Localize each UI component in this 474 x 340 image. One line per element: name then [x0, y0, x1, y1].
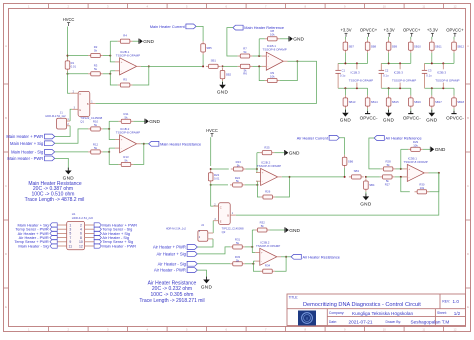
svg-text:GND: GND [289, 151, 300, 157]
svg-text:IC2B.3: IC2B.3 [394, 70, 404, 74]
op-amp power pins IC2B.3 [392, 63, 416, 88]
node main shunt bottom [67, 73, 69, 75]
svg-text:-: - [262, 179, 263, 183]
ground flag group 1 [340, 110, 352, 123]
wire [367, 37, 369, 40]
wire minus node vertical to R5 [110, 71, 117, 85]
wire to R25 [257, 152, 260, 154]
power flag OPVCC- group 1 [360, 111, 378, 121]
svg-text:10k: 10k [270, 33, 275, 37]
resistor R23 5k [231, 160, 246, 171]
svg-text:1/2: 1/2 [454, 311, 461, 316]
svg-text:TSSOP-8 OPAMP: TSSOP-8 OPAMP [257, 164, 281, 168]
svg-text:0.1u: 0.1u [383, 73, 389, 77]
resistor R4 [118, 34, 133, 44]
svg-text:TSSOP-8 OPAMP: TSSOP-8 OPAMP [116, 53, 140, 57]
ground flag at R4 [139, 39, 155, 46]
connector J4 HDR-M-2.54_1x2 [166, 223, 213, 241]
text block main heater resistance [25, 181, 85, 203]
svg-text:E: E [220, 219, 222, 223]
hier label Main Heater - Sig [11, 149, 55, 154]
wire J1 pin2 to label [55, 126, 70, 137]
resistor SB1 [206, 59, 221, 69]
wire R3 to minus node [103, 73, 110, 75]
wire R8 to GND [280, 38, 289, 40]
svg-text:12: 12 [454, 328, 457, 332]
svg-text:-: - [261, 259, 262, 263]
wire plus node up [400, 149, 402, 169]
resistor R31 5k [230, 238, 245, 249]
wire R33 to minus node [245, 263, 254, 265]
node IC3B.1 output [438, 172, 440, 174]
svg-text:10: 10 [383, 4, 386, 8]
hier pin Main Heater - PWR [94, 244, 101, 248]
power flag +3.3V group 1 [340, 28, 351, 37]
wire [367, 53, 369, 64]
svg-text:R26: R26 [265, 190, 271, 194]
global label Main Heater Current [150, 24, 196, 29]
svg-text:♕: ♕ [305, 316, 308, 320]
wire [431, 88, 433, 95]
resistor SB17 [430, 95, 443, 108]
svg-text:OPVCC+: OPVCC+ [446, 28, 464, 33]
svg-text:10k: 10k [413, 143, 418, 147]
op-amp IC3B.1 [403, 156, 429, 181]
svg-text:+3.3V: +3.3V [384, 28, 395, 33]
wire R2 to op-amp plus node [103, 55, 110, 57]
wire R4 to GND [133, 40, 139, 42]
wire [344, 109, 346, 112]
svg-text:B: B [87, 102, 89, 106]
svg-text:E: E [5, 305, 7, 309]
svg-text:Sheet:: Sheet: [437, 311, 447, 315]
global label Air Heater Current [297, 135, 340, 140]
wire top rail group 2 [381, 62, 411, 64]
svg-text:11: 11 [422, 4, 425, 8]
svg-text:Air Heater Current: Air Heater Current [297, 136, 329, 140]
power flag HVCC (air) [206, 128, 218, 137]
transistor Q1 TIP122_C145098 [70, 90, 102, 123]
svg-text:Air Heater - PWR: Air Heater - PWR [154, 268, 186, 273]
hier label Main Heater + PWR [6, 134, 54, 139]
wire output to label [141, 143, 149, 145]
wire plus into pin [259, 55, 262, 57]
resistor R26 [260, 190, 275, 199]
hier pin Temp Sensr + Sig [94, 240, 101, 244]
svg-text:Main Heater + PWR: Main Heater + PWR [6, 134, 43, 139]
svg-text:10: 10 [383, 328, 386, 332]
resistor SB10 [409, 40, 422, 53]
op-amp power pins IC1B.3 [349, 63, 373, 88]
svg-text:Main Heater Current: Main Heater Current [150, 25, 186, 29]
svg-text:SB3: SB3 [354, 169, 360, 173]
svg-text:OPVCC+: OPVCC+ [403, 28, 421, 33]
svg-text:D: D [467, 252, 469, 256]
power flag OPVCC- group 3 [446, 111, 464, 121]
svg-text:R5: R5 [123, 78, 127, 82]
node IC3B.1 minus [400, 176, 402, 178]
wire -Sig to R12 [55, 151, 88, 153]
hier pin Air Heater - Sig [94, 235, 101, 239]
svg-text:Company:: Company: [329, 311, 345, 315]
wire +Sig to R31 [197, 247, 230, 254]
svg-text:TSSOP-8 OPAMP: TSSOP-8 OPAMP [256, 244, 280, 248]
wire plus node vertical [110, 41, 115, 62]
resistor R11 5k [119, 112, 134, 123]
power flag HVCC (main) [63, 17, 75, 26]
wire R28 to plus node [396, 168, 401, 170]
hier pin Temp Sensr - Sig [94, 227, 101, 231]
hier pin Main Heater - Sig [50, 244, 57, 248]
op-amp IC2B.2 [256, 160, 282, 185]
svg-text:Air Heater + PWR: Air Heater + PWR [153, 245, 186, 250]
wire [344, 53, 346, 64]
svg-text:C: C [79, 92, 81, 96]
wire -PWR to ground [55, 158, 69, 169]
svg-text:+3.3V: +3.3V [340, 28, 351, 33]
svg-text:Air Heater Resistance: Air Heater Resistance [303, 255, 340, 259]
wire [453, 53, 455, 64]
svg-text:SB12: SB12 [457, 44, 464, 48]
svg-text:TSSOP-8 OPAMP: TSSOP-8 OPAMP [263, 48, 287, 52]
svg-text:R27: R27 [385, 182, 391, 186]
title block [287, 294, 466, 326]
ground flag main heater -PWR [63, 168, 75, 181]
svg-text:GND: GND [217, 90, 229, 95]
wire top rail group 3 [425, 62, 455, 64]
svg-text:J1: J1 [60, 111, 63, 115]
resistor R9 10k [265, 71, 280, 82]
svg-text:GND: GND [289, 228, 300, 234]
svg-text:Air Heater - Sig: Air Heater - Sig [158, 261, 187, 266]
svg-text:Main Heater - PWR: Main Heater - PWR [102, 243, 136, 248]
resistor SB2 [220, 68, 231, 81]
resistor SB4 [364, 179, 375, 192]
ground flag below SB2 [217, 82, 229, 95]
wire [410, 88, 412, 95]
svg-text:SB10: SB10 [414, 44, 421, 48]
svg-text:0.1u: 0.1u [426, 73, 432, 77]
resistor R32 5k [255, 221, 270, 232]
resistor R25 [260, 145, 275, 154]
resistor SB7 [343, 40, 354, 53]
ground flag at R32 [285, 227, 301, 234]
wire feedback R34 [275, 257, 286, 271]
wire feedback R30 [429, 173, 439, 192]
svg-text:Trace Length -> 4878.2 mil: Trace Length -> 4878.2 mil [25, 197, 85, 203]
ground flag at R25 [284, 150, 300, 157]
wire IC3B.1 output loop to Q2 base [236, 173, 439, 215]
resistor R12 5k [88, 143, 103, 154]
connector J1 HDR-M-2.54_1x2 [45, 111, 70, 129]
node air shunt bottom [210, 184, 212, 186]
resistor R6 5k [238, 64, 253, 75]
hier label Air Heater - Sig [158, 261, 198, 266]
svg-text:B: B [5, 116, 7, 120]
svg-text:-: - [409, 175, 410, 179]
svg-text:Main Heater - PWR: Main Heater - PWR [7, 156, 43, 161]
svg-text:SB1: SB1 [211, 59, 217, 63]
node IC1B.2 output [143, 143, 145, 145]
svg-text:-: - [268, 64, 269, 68]
svg-text:R25: R25 [264, 145, 270, 149]
op-amp IC1B.1 [262, 44, 288, 70]
wire shunt top to R2 [68, 55, 89, 57]
svg-text:Date:: Date: [329, 320, 337, 324]
svg-text:GND: GND [201, 284, 213, 289]
global label Main Heater Reference [233, 25, 284, 30]
svg-text:Q1: Q1 [80, 119, 84, 123]
svg-text:SB17: SB17 [435, 100, 442, 104]
node IC2B.2 output [289, 176, 291, 178]
op-amp power pins IC3B.3 [435, 63, 459, 88]
svg-text:Main Heater + Sig: Main Heater + Sig [10, 141, 44, 146]
svg-text:Air Heater + Sig: Air Heater + Sig [157, 251, 187, 256]
wire HVCC2 down [210, 137, 212, 166]
node U1 minus [109, 73, 111, 75]
KTH logo [298, 311, 316, 326]
power flag +3.3V group 3 [427, 28, 438, 37]
ground flag at R11 [145, 119, 161, 126]
wire shunt bottom to R3 [68, 73, 89, 75]
resistor SB15 [386, 95, 399, 108]
resistor SB3 [349, 169, 364, 179]
svg-text:SB14: SB14 [371, 100, 378, 104]
svg-text:GND: GND [63, 175, 75, 180]
svg-text:IC3B.3: IC3B.3 [437, 70, 447, 74]
wire [431, 109, 433, 112]
resistor R3 5k [88, 63, 103, 75]
wire to R27 [366, 176, 380, 178]
wire feedback R13 [133, 144, 143, 165]
node IC2B.2 minus [256, 184, 258, 186]
wire plus vertical [255, 153, 258, 173]
svg-text:SB2: SB2 [226, 73, 232, 77]
wire Q1 emitter to J1 pin1 [70, 109, 72, 121]
node SB5 output [202, 65, 204, 67]
svg-text:C: C [5, 184, 7, 188]
svg-text:B: B [467, 116, 469, 120]
hier pin Air Heater + Sig [94, 231, 101, 235]
capacitor C1 0.1u [335, 63, 345, 88]
svg-text:HVCC: HVCC [206, 128, 218, 133]
hier pin Air Heater + PWR [50, 231, 57, 235]
svg-text:Main Heater - Sig: Main Heater - Sig [11, 149, 44, 154]
svg-text:Democritizing DNA Diagnostics: Democritizing DNA Diagnostics - Control … [303, 302, 421, 308]
wire minus node down to R9 [259, 66, 265, 80]
wire R31 to plus node [245, 246, 252, 248]
node IC3B.2 output [285, 256, 287, 258]
svg-text:12: 12 [454, 4, 457, 8]
resistor R13 5k [119, 155, 134, 166]
wire [388, 109, 390, 112]
svg-text:Q2: Q2 [222, 230, 226, 234]
wire label to SB6 [339, 138, 344, 155]
svg-text:C: C [467, 184, 469, 188]
transistor Q2 TIP122_C145098 [213, 203, 244, 234]
svg-text:GND: GND [149, 119, 160, 125]
svg-text:Main Heater - Sig: Main Heater - Sig [18, 243, 48, 248]
svg-text:SB4: SB4 [369, 183, 375, 187]
power flag OPVCC+ group 2 [403, 28, 421, 37]
node main shunt top [67, 55, 69, 57]
svg-text:GND: GND [293, 37, 304, 43]
resistor R5 feedback [118, 78, 133, 88]
wire plus node up to R8 [258, 39, 260, 56]
wire R12 to minus node [103, 151, 109, 153]
wire [344, 88, 346, 95]
svg-text:0.01: 0.01 [214, 177, 220, 181]
wire minus into pin [109, 147, 115, 149]
svg-text:GND: GND [143, 39, 154, 45]
svg-text:J4: J4 [201, 223, 204, 227]
wire IC1B.1 output loop to Q1 base [95, 61, 316, 103]
op-amp IC1B.2 [115, 127, 141, 153]
resistor R27 5k [380, 175, 395, 186]
resistor SB11 [430, 40, 443, 53]
wire output [429, 172, 439, 174]
svg-text:HDR-M-2.54_1x2: HDR-M-2.54_1x2 [166, 227, 187, 231]
wire R11 to GND [133, 120, 145, 122]
resistor R2 5k [88, 45, 103, 57]
ground flag at R29 [430, 147, 446, 154]
wire shunt bottom to R24 [211, 184, 228, 186]
wire feedback R26 [275, 177, 289, 197]
wire SB4 down [365, 192, 367, 196]
wire to R32 [252, 229, 255, 231]
wire minus vertical to R34 [253, 261, 260, 271]
wire Q2 emitter to J4 pin1 [212, 221, 214, 233]
wire bottom rail group 3 [425, 87, 455, 89]
wire [431, 37, 433, 40]
power flag +3.3V group 2 [384, 28, 395, 37]
wire shunt top to R23 [211, 168, 229, 170]
resistor R22 shunt 0.01 [208, 170, 219, 183]
resistor SB18 [452, 95, 465, 108]
wire to R8 [259, 38, 265, 40]
svg-text:R34: R34 [265, 264, 271, 268]
svg-text:SB5: SB5 [206, 46, 212, 50]
hier pin Main Heater + Sig [50, 223, 57, 227]
node SB1 SB2 [222, 65, 224, 67]
capacitor C3 0.1u [422, 63, 432, 88]
resistor R33 5k [230, 255, 245, 266]
svg-text:C2: C2 [385, 68, 389, 72]
svg-text:2021-07-21: 2021-07-21 [349, 319, 373, 324]
svg-text:SB15: SB15 [392, 100, 399, 104]
hier label Air Heater - PWR [154, 268, 197, 273]
connector H1 HDR-F-2.54_2x6 [57, 212, 94, 250]
svg-text:GND: GND [340, 118, 352, 123]
wire [453, 88, 455, 95]
svg-text:D: D [5, 252, 7, 256]
svg-text:-: - [121, 69, 122, 73]
hier label Air Heater + Sig [157, 251, 198, 256]
wire reference to R28 [369, 138, 381, 169]
node IC3B.1 plus [400, 168, 402, 170]
node U1 output feedback [148, 65, 150, 67]
svg-text:A: A [467, 44, 469, 48]
svg-text:TITLE:: TITLE: [289, 296, 299, 300]
svg-text:Kungliga Tekniska Högskolan: Kungliga Tekniska Högskolan [352, 311, 414, 316]
wire minus vertical to R26 [257, 181, 260, 197]
power flag OPVCC+ group 3 [446, 28, 464, 37]
wire [410, 53, 412, 64]
svg-text:GND: GND [383, 118, 395, 123]
resistor R8 10k [265, 29, 280, 41]
svg-text:GND: GND [426, 118, 438, 123]
svg-text:GND: GND [360, 201, 372, 206]
wire R25 to GND [274, 152, 284, 154]
svg-text:Seshagopalan T.M: Seshagopalan T.M [411, 319, 450, 324]
svg-text:C1: C1 [342, 68, 346, 72]
wire minus into pin [256, 180, 257, 182]
svg-text:OPVCC+: OPVCC+ [360, 28, 378, 33]
wire [388, 88, 390, 95]
svg-text:OPVCC-: OPVCC- [446, 116, 464, 121]
wire to R29 [401, 148, 408, 150]
wire [410, 37, 412, 40]
global label Air Heater Resistance [291, 254, 340, 259]
svg-text:HVCC: HVCC [63, 17, 75, 22]
text block air heater resistance [139, 280, 204, 303]
svg-text:TSSOP-8 OPAMP: TSSOP-8 OPAMP [435, 78, 459, 82]
wire R32 to GND [270, 229, 285, 231]
wire SB2 to ground [222, 81, 224, 84]
global label Main Heater Resistance [149, 141, 201, 146]
svg-text:Drawn By:: Drawn By: [386, 320, 402, 324]
op-amp IC2B.1 [115, 50, 141, 75]
resistor SB12 [452, 40, 465, 53]
capacitor C2 0.1u [379, 63, 389, 88]
wire shunt to Q2 collector [211, 183, 219, 206]
power flag OPVCC+ group 1 [360, 28, 378, 37]
svg-text:SB11: SB11 [435, 44, 442, 48]
wire [388, 37, 390, 40]
svg-text:Main Heater Reference: Main Heater Reference [244, 26, 284, 30]
wire to R6 [223, 65, 238, 67]
node IC2B.2 plus [256, 168, 258, 170]
svg-text:-: - [121, 146, 122, 150]
svg-text:10k: 10k [270, 75, 275, 79]
resistor R24 5k [230, 176, 245, 187]
svg-text:R4: R4 [123, 34, 127, 38]
wire [431, 53, 433, 64]
wire R27 to minus node [395, 176, 403, 178]
hier pin Main Heater + PWR [94, 223, 101, 227]
resistor SB14 [365, 95, 378, 108]
wire [367, 88, 369, 95]
svg-text:C3: C3 [428, 68, 432, 72]
svg-text:OPVCC-: OPVCC- [360, 116, 378, 121]
node U1 plus [109, 55, 111, 57]
wire SB5 down [202, 55, 204, 67]
svg-text:A: A [5, 44, 7, 48]
node IC1B.1 output [296, 60, 298, 62]
wire minus node to pin [110, 70, 115, 72]
wire [453, 37, 455, 40]
wire output to label [281, 256, 291, 258]
svg-text:TSSOP-8 OPAMP: TSSOP-8 OPAMP [392, 78, 416, 82]
wire -PWR to ground [197, 270, 206, 279]
wire minus into pin [253, 260, 255, 262]
svg-text:SB16: SB16 [414, 100, 421, 104]
svg-text:B: B [227, 214, 229, 218]
svg-text:1.0: 1.0 [453, 299, 460, 304]
svg-text:IC1B.3: IC1B.3 [351, 70, 361, 74]
wire shunt to Q1 collector [68, 71, 71, 93]
svg-text:E: E [79, 108, 81, 112]
